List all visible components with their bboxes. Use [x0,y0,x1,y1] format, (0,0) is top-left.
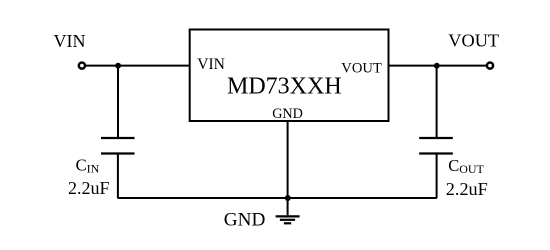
svg-text:GND: GND [224,210,266,231]
svg-text:MD73XXH: MD73XXH [227,73,342,99]
svg-text:GND: GND [272,106,303,122]
svg-text:2.2uF: 2.2uF [446,179,488,199]
svg-text:VOUT: VOUT [448,31,499,51]
svg-text:VIN: VIN [54,31,86,51]
svg-text:2.2uF: 2.2uF [68,178,110,198]
svg-text:VIN: VIN [197,56,225,73]
svg-text:VOUT: VOUT [341,60,382,76]
